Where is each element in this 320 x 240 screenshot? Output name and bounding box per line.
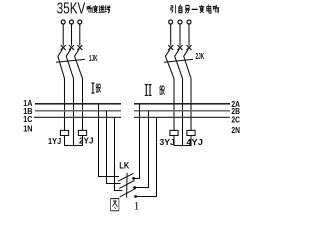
wire 3YJ bottom lead [173, 136, 175, 146]
contact X of 2JK pole A [168, 45, 173, 50]
blade LK pole 2 [119, 181, 134, 189]
svg-text:2C: 2C [231, 115, 240, 124]
wire link joining 3YJ 4YJ bottoms and phase B [174, 145, 192, 147]
blade LK pole 3 [120, 188, 136, 197]
terminal circle right phase B [178, 20, 182, 24]
terminal circle right phase C [187, 20, 191, 24]
voltage relay 3YJ coil [170, 130, 178, 135]
svg-text:2YJ: 2YJ [79, 136, 94, 146]
busbar 2A [134, 103, 230, 105]
label II段 section II [145, 85, 165, 96]
wire incoming right phase B [179, 24, 181, 45]
wire 2YJ bottom lead [82, 136, 84, 146]
wire 1YJ bottom lead [64, 136, 66, 146]
svg-text:3YJ: 3YJ [159, 137, 175, 147]
wire incoming left phase A [62, 24, 64, 45]
voltage relay 1YJ coil [60, 130, 68, 135]
terminal circle left phase B [70, 20, 74, 24]
svg-text:1N: 1N [23, 125, 32, 134]
linkage bar of switch 1JK [56, 59, 85, 62]
wire from busbar 1B to LK pole 2 [107, 111, 121, 184]
wire from LK pole 3 to busbar 2C [136, 117, 157, 196]
wire 4YJ bottom lead [190, 136, 192, 146]
linkage bar of switch 2JK [164, 59, 193, 62]
contact X of 1JK pole A [61, 45, 66, 50]
svg-text:35KV: 35KV [57, 1, 86, 18]
wire incoming right phase C [188, 24, 190, 45]
busbar 1C [34, 116, 121, 118]
svg-text:1C: 1C [23, 115, 32, 124]
voltage relay 2YJ coil [78, 130, 86, 135]
blade and wire of 1JK pole C down to bus section I [75, 49, 83, 130]
wire from busbar 1C to LK pole 3 [115, 117, 123, 190]
blade and wire of 2JK pole B down to bus section II [175, 49, 183, 145]
contact X of 2JK pole C [187, 45, 192, 50]
busbar 1A [35, 103, 121, 105]
contact dot LK pole 2 [133, 186, 136, 189]
wire from busbar 1A to LK pole 1 [99, 104, 120, 177]
svg-text:LK: LK [119, 160, 129, 171]
svg-text:1YJ: 1YJ [48, 136, 61, 146]
svg-text:1: 1 [134, 200, 140, 212]
busbar 1B [35, 110, 121, 112]
blade and wire of 1JK pole A down to bus section I [58, 49, 65, 130]
terminal circle left phase A [61, 20, 65, 24]
label 引自另一变电所 [171, 5, 219, 13]
blade and wire of 1JK pole B down to bus section I [66, 49, 73, 145]
terminal circle left phase C [78, 20, 82, 24]
busbar 2B [134, 110, 230, 112]
terminal circle right phase A [169, 20, 173, 24]
contact X of 1JK pole C [77, 45, 82, 50]
contact dot LK pole 3 [134, 195, 137, 198]
contact X of 1JK pole B [69, 45, 74, 50]
blade LK pole 1 [118, 173, 133, 181]
busbar 2C [134, 116, 230, 118]
contact dot LK pole 1 [132, 177, 135, 180]
label 所变进线 [87, 5, 110, 12]
voltage relay 4YJ coil [187, 130, 195, 135]
linkage bar of switch LK [126, 173, 129, 198]
svg-text:2N: 2N [231, 126, 240, 135]
wire incoming left phase B [71, 24, 73, 45]
wire from LK pole 1 to busbar 2A [134, 104, 140, 179]
caption 图 1 [111, 199, 140, 213]
wire incoming right phase A [170, 24, 172, 45]
blade and wire of 2JK pole C down to bus section II [184, 49, 191, 130]
wire incoming left phase C [79, 24, 81, 45]
blade and wire of 2JK pole A down to bus section II [165, 49, 174, 130]
contact X of 2JK pole B [178, 45, 183, 50]
svg-text:2JK: 2JK [196, 51, 205, 61]
label I段 section I [91, 83, 100, 93]
wire link joining 1YJ 2YJ bottoms and phase B [64, 145, 83, 147]
wire from LK pole 2 to busbar 2B [135, 111, 149, 188]
svg-text:4YJ: 4YJ [186, 137, 203, 147]
svg-text:1JK: 1JK [89, 53, 98, 63]
